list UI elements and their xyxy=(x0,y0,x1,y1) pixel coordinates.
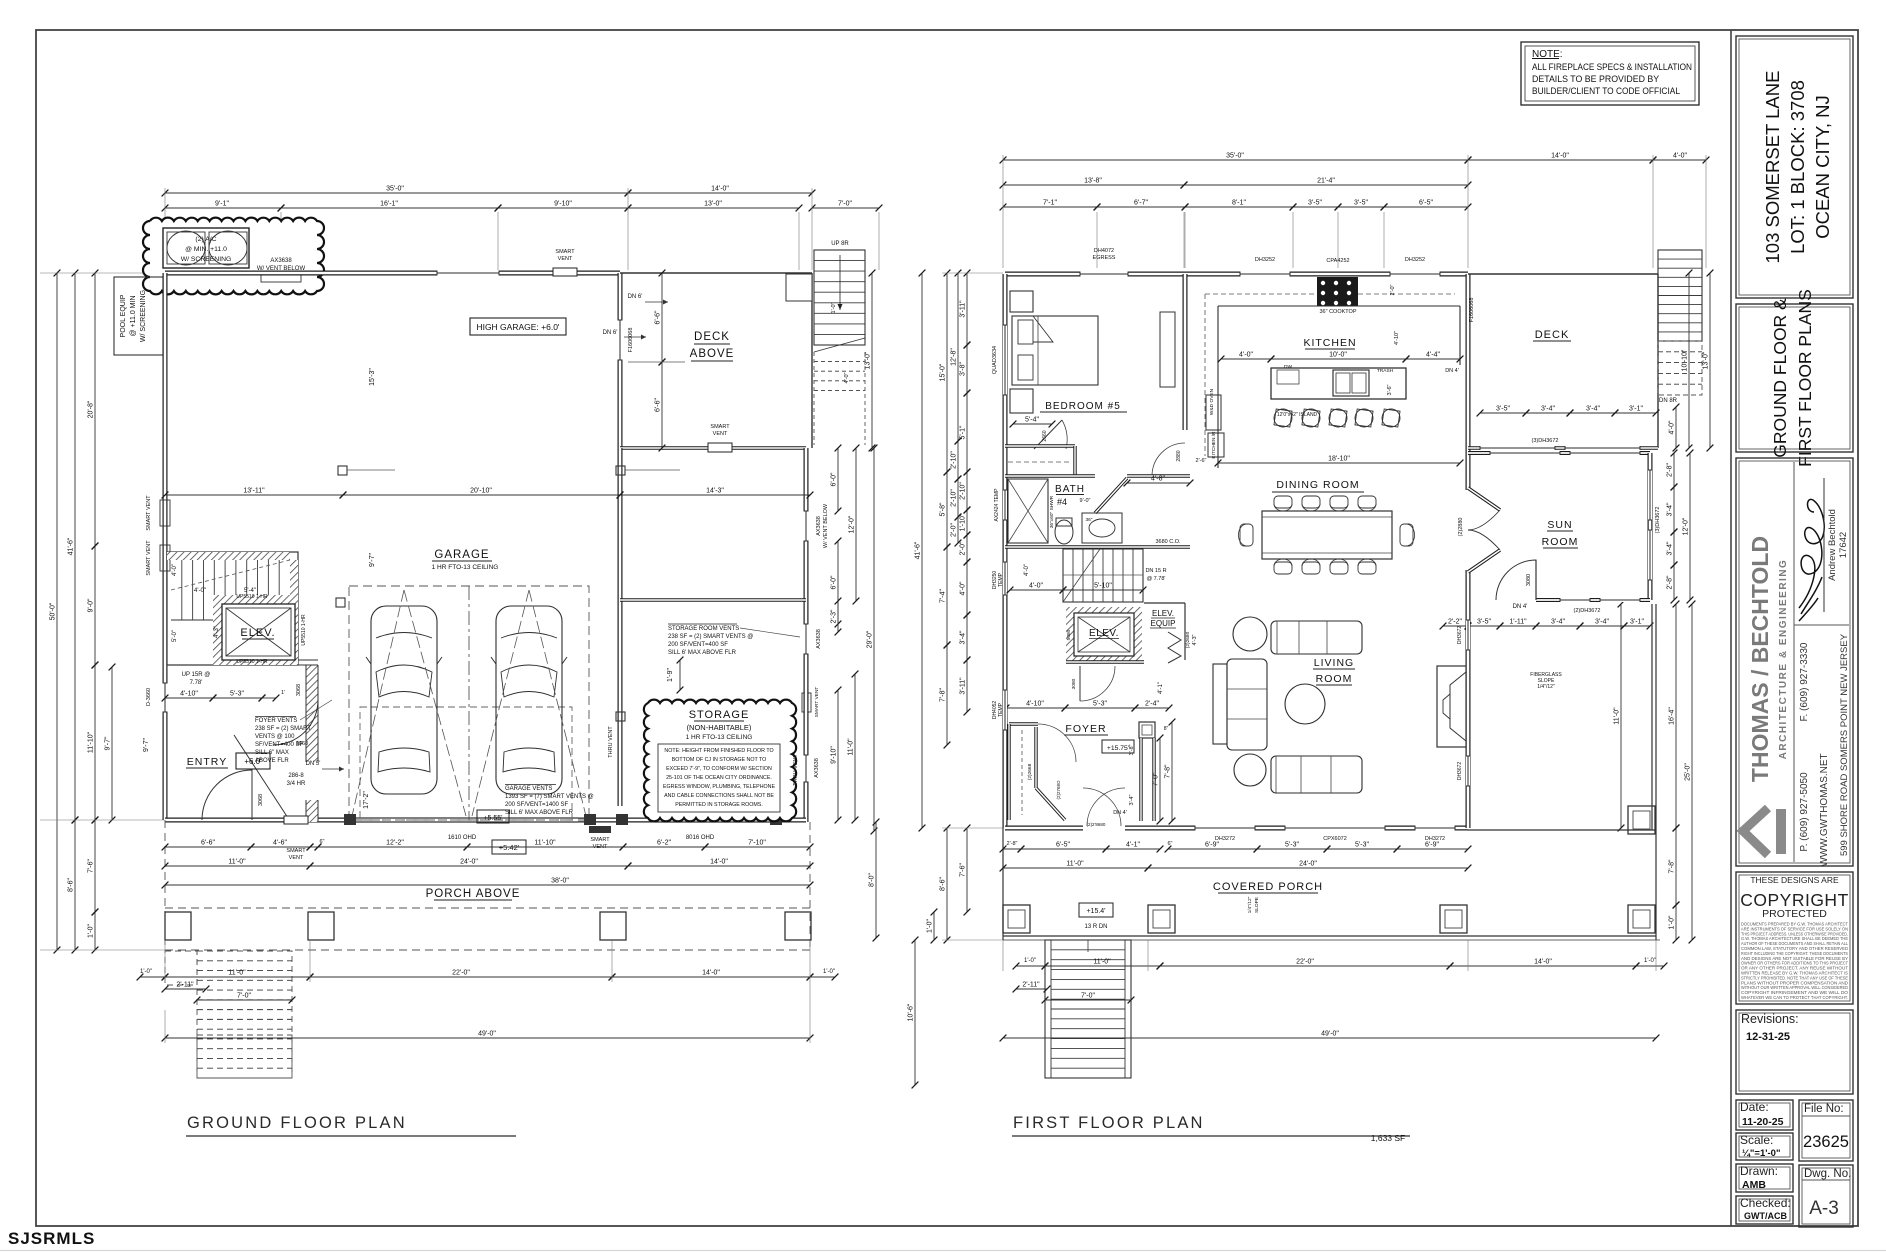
storage note cloud xyxy=(644,700,796,822)
svg-text:3'-5": 3'-5" xyxy=(1308,200,1322,207)
svg-text:VENT: VENT xyxy=(289,855,304,861)
svg-text:13'-0": 13'-0" xyxy=(865,351,872,369)
svg-text:Dwg. No.: Dwg. No. xyxy=(1804,1168,1851,1180)
svg-text:DN 4': DN 4' xyxy=(1445,368,1459,374)
svg-text:VENT: VENT xyxy=(558,256,573,262)
bedroom east wall xyxy=(1183,274,1188,430)
svg-text:10'-10": 10'-10" xyxy=(1682,349,1689,371)
svg-text:1'-0": 1'-0" xyxy=(831,302,837,313)
svg-text:29'-0": 29'-0" xyxy=(867,630,874,648)
svg-text:21'-4": 21'-4" xyxy=(1317,178,1335,185)
svg-text:EGRESS: EGRESS xyxy=(1093,255,1116,261)
svg-text:200 SF/VENT=1400 SF: 200 SF/VENT=1400 SF xyxy=(505,802,569,808)
svg-text:2'-6": 2'-6" xyxy=(1196,458,1207,464)
sofa bottom xyxy=(1271,756,1362,793)
svg-text:2'-10": 2'-10" xyxy=(960,482,967,500)
svg-text:WWW.GWTHOMAS.NET: WWW.GWTHOMAS.NET xyxy=(1819,753,1830,866)
kitchen island xyxy=(1271,368,1406,399)
svg-text:238 SF = (2) SMART: 238 SF = (2) SMART xyxy=(255,726,311,732)
svg-text:1'-0": 1'-0" xyxy=(927,919,934,933)
svg-text:ABOVE FLR: ABOVE FLR xyxy=(255,758,289,764)
foyer vents note xyxy=(255,716,296,718)
svg-text:1 HR FTO-13 CEILING: 1 HR FTO-13 CEILING xyxy=(432,564,499,571)
svg-text:36" COOKTOP: 36" COOKTOP xyxy=(1319,309,1356,315)
svg-text:(2)2668: (2)2668 xyxy=(1027,763,1033,780)
svg-text:SILL 6" MAX: SILL 6" MAX xyxy=(255,750,289,756)
svg-text:ARCHITECTURE & ENGINEERING: ARCHITECTURE & ENGINEERING xyxy=(1778,559,1789,760)
svg-text:CPA4252: CPA4252 xyxy=(1326,258,1349,264)
svg-text:11'-0": 11'-0" xyxy=(228,970,246,977)
cooktop xyxy=(1317,277,1358,306)
pool equip box xyxy=(114,277,163,355)
svg-text:2'-10": 2'-10" xyxy=(951,489,958,507)
svg-text:AND CABLE CONNECTIONS SHALL NO: AND CABLE CONNECTIONS SHALL NOT BE xyxy=(664,793,774,799)
elevation tags xyxy=(477,810,509,823)
svg-text:GROUND FLOOR PLAN: GROUND FLOOR PLAN xyxy=(187,1114,407,1132)
svg-text:2'-2": 2'-2" xyxy=(1448,619,1462,626)
svg-text:4'-3": 4'-3" xyxy=(214,626,220,638)
svg-text:SMART VENT: SMART VENT xyxy=(814,687,820,718)
svg-text:OCEAN CITY, NJ: OCEAN CITY, NJ xyxy=(1812,95,1833,239)
svg-text:DN 5': DN 5' xyxy=(306,761,321,767)
svg-text:9'-0": 9'-0" xyxy=(88,598,95,612)
svg-text:12'-0": 12'-0" xyxy=(849,515,856,533)
sofa top xyxy=(1271,621,1362,654)
bed xyxy=(1010,291,1033,312)
elev equip room xyxy=(1144,602,1185,604)
svg-text:35'-0": 35'-0" xyxy=(1226,153,1244,160)
svg-text:4'-0": 4'-0" xyxy=(844,372,850,383)
svg-text:3'-4": 3'-4" xyxy=(1667,502,1674,516)
svg-text:11'-0": 11'-0" xyxy=(848,738,855,756)
svg-text:FOYER VENTS: FOYER VENTS xyxy=(255,718,297,724)
svg-text:3'-4": 3'-4" xyxy=(1667,541,1674,555)
svg-text:6'-6": 6'-6" xyxy=(655,310,662,324)
sun room bottom dims xyxy=(1443,625,1468,627)
svg-text:1'-9": 1'-9" xyxy=(667,668,674,682)
svg-text:W/ VENT BELOW: W/ VENT BELOW xyxy=(823,503,829,548)
svg-text:3'-4": 3'-4" xyxy=(1551,619,1565,626)
svg-text:+5.55': +5.55' xyxy=(483,815,502,822)
svg-text:11'-0": 11'-0" xyxy=(228,859,246,866)
svg-text:10'-6": 10'-6" xyxy=(908,1003,915,1021)
svg-text:5'-10": 5'-10" xyxy=(1094,583,1112,590)
svg-text:2'-10": 2'-10" xyxy=(951,451,958,469)
svg-text:DN 6': DN 6' xyxy=(603,330,618,336)
svg-text:W&D OVEN: W&D OVEN xyxy=(1209,388,1215,415)
svg-text:DH3672: DH3672 xyxy=(1457,626,1463,645)
svg-text:3'-6": 3'-6" xyxy=(1387,384,1393,395)
svg-text:4'-10": 4'-10" xyxy=(180,691,198,698)
svg-text:16'-4": 16'-4" xyxy=(1669,707,1676,725)
svg-text:(2)2768O: (2)2768O xyxy=(1056,780,1061,800)
vanity xyxy=(1082,513,1122,543)
svg-text:16'-1": 16'-1" xyxy=(380,201,398,208)
svg-text:5'-3": 5'-3" xyxy=(1285,842,1299,849)
svg-text:POOL EQUIP: POOL EQUIP xyxy=(120,294,127,337)
car xyxy=(371,606,437,794)
svg-text:5'-4": 5'-4" xyxy=(1025,417,1039,424)
svg-text:1': 1' xyxy=(281,690,285,696)
ff stairs xyxy=(1063,549,1143,602)
svg-text:14'-0": 14'-0" xyxy=(702,970,720,977)
svg-text:WHATEVER WE CAN TO PROTECT THA: WHATEVER WE CAN TO PROTECT THAT COPYRIGH… xyxy=(1741,995,1848,1000)
svg-text:ELEV.: ELEV. xyxy=(240,627,275,639)
svg-text:+15.75': +15.75' xyxy=(1107,745,1129,752)
svg-text:9'-1": 9'-1" xyxy=(215,201,229,208)
svg-text:18'-10": 18'-10" xyxy=(1328,456,1350,463)
svg-text:1'-0": 1'-0" xyxy=(140,969,152,975)
svg-text:4'-8": 4'-8" xyxy=(1151,476,1165,483)
foyer east wall xyxy=(1139,722,1155,738)
svg-text:6'-9": 6'-9" xyxy=(1425,842,1439,849)
A/C units xyxy=(163,228,249,268)
svg-text:13'-11": 13'-11" xyxy=(243,488,265,495)
svg-text:11'-0": 11'-0" xyxy=(1066,861,1084,868)
svg-text:DN 4': DN 4' xyxy=(1513,604,1528,610)
garage bay outlines xyxy=(349,586,589,820)
svg-text:13'-8": 13'-8" xyxy=(1084,178,1102,185)
porch above outline xyxy=(165,907,810,909)
car xyxy=(496,606,562,794)
svg-text:COPYRIGHT: COPYRIGHT xyxy=(1740,890,1849,910)
svg-text:6'-7": 6'-7" xyxy=(1134,200,1148,207)
kitchen appliances left xyxy=(1206,395,1221,430)
svg-text:BUILDER/CLIENT TO CODE OFFICIA: BUILDER/CLIENT TO CODE OFFICIAL xyxy=(1532,86,1680,96)
svg-text:DECK: DECK xyxy=(694,331,730,343)
svg-text:GARAGE VENTS: GARAGE VENTS xyxy=(505,786,552,792)
svg-text:SILL 6' MAX ABOVE FLR: SILL 6' MAX ABOVE FLR xyxy=(505,810,574,816)
svg-text:12-31-25: 12-31-25 xyxy=(1746,1031,1790,1043)
svg-text:1'-0": 1'-0" xyxy=(823,969,835,975)
gf bottom wall with garage doors xyxy=(165,818,352,823)
svg-text:THESE DESIGNS ARE: THESE DESIGNS ARE xyxy=(1750,875,1839,885)
svg-text:1/4"/12": 1/4"/12" xyxy=(1537,684,1555,690)
svg-text:PROTECTED: PROTECTED xyxy=(1762,908,1827,920)
svg-text:4'-0": 4'-0" xyxy=(1239,352,1253,359)
svg-text:24'-0": 24'-0" xyxy=(1299,861,1317,868)
svg-text:4'-6": 4'-6" xyxy=(273,840,287,847)
svg-text:103 SOMERSET LANE: 103 SOMERSET LANE xyxy=(1762,71,1783,264)
svg-text:38'-0": 38'-0" xyxy=(551,878,569,885)
svg-text:KITCHEN /R: KITCHEN /R xyxy=(1211,431,1217,459)
svg-text:36"x60" SHWR: 36"x60" SHWR xyxy=(1049,495,1055,528)
svg-text:DH3252: DH3252 xyxy=(1405,257,1425,263)
gf elevator xyxy=(213,595,298,665)
svg-text:5'-8": 5'-8" xyxy=(940,502,947,516)
kitchen counters xyxy=(1218,305,1460,307)
gf bottom dims xyxy=(165,846,251,848)
svg-text:7'-0": 7'-0" xyxy=(1153,772,1160,786)
svg-text:5'-3": 5'-3" xyxy=(1093,701,1107,708)
deck above region xyxy=(620,272,812,274)
foyer dims xyxy=(1006,707,1065,709)
svg-text:11'-0": 11'-0" xyxy=(1614,707,1621,725)
svg-text:4'-0": 4'-0" xyxy=(194,588,206,594)
sun room door xyxy=(1496,560,1536,600)
dresser xyxy=(1160,312,1175,387)
svg-text:13'-0": 13'-0" xyxy=(1703,351,1710,369)
ff top wall windows xyxy=(1080,272,1128,277)
bedroom closet xyxy=(1005,444,1075,447)
svg-text:(2) A/C: (2) A/C xyxy=(195,236,216,243)
svg-text:15'-0": 15'-0" xyxy=(940,363,947,381)
svg-text:1'-0": 1'-0" xyxy=(1644,958,1656,964)
svg-text:7'-10": 7'-10" xyxy=(748,840,766,847)
svg-text:(3)DH3672: (3)DH3672 xyxy=(1655,507,1661,534)
svg-text:(2)2680: (2)2680 xyxy=(1185,631,1191,648)
gf interior dims xyxy=(165,494,343,496)
svg-text:6'-9": 6'-9" xyxy=(1205,842,1219,849)
svg-text:2'-8": 2'-8" xyxy=(1007,841,1018,847)
svg-text:8": 8" xyxy=(1164,726,1169,732)
svg-text:SMART VENT: SMART VENT xyxy=(146,495,152,531)
svg-text:11'-10": 11'-10" xyxy=(88,731,95,753)
svg-text:FIRST FLOOR PLANS: FIRST FLOOR PLANS xyxy=(1795,289,1815,467)
svg-text:@ +11.0 MIN: @ +11.0 MIN xyxy=(130,295,137,336)
svg-text:SMART VENT: SMART VENT xyxy=(146,540,152,576)
svg-text:EQUIP: EQUIP xyxy=(1151,619,1176,628)
svg-text:3'-5": 3'-5" xyxy=(1477,619,1491,626)
svg-text:3'-11": 3'-11" xyxy=(960,677,967,695)
ff left dims xyxy=(921,273,923,828)
svg-text:Date:: Date: xyxy=(1740,1100,1769,1114)
svg-text:3'-1": 3'-1" xyxy=(1630,619,1644,626)
svg-text:VENT: VENT xyxy=(713,431,728,437)
title block column xyxy=(1730,30,1732,1226)
svg-text:4'-1": 4'-1" xyxy=(1158,682,1164,694)
svg-text:7'-6": 7'-6" xyxy=(88,859,95,873)
svg-text:5080: 5080 xyxy=(1066,629,1072,640)
svg-text:UP5510 1-HR: UP5510 1-HR xyxy=(236,659,268,665)
svg-text:1'-0": 1'-0" xyxy=(1024,958,1036,964)
svg-text:3'-8": 3'-8" xyxy=(1129,744,1135,755)
svg-text:SUN: SUN xyxy=(1547,519,1572,531)
svg-text:8'-1": 8'-1" xyxy=(1232,200,1246,207)
svg-text:50'-0": 50'-0" xyxy=(50,602,57,620)
svg-text:3'-5": 3'-5" xyxy=(1496,406,1510,413)
svg-text:LOT: 1 BLOCK: 3708: LOT: 1 BLOCK: 3708 xyxy=(1787,80,1808,254)
garage vents note xyxy=(505,784,556,786)
bar stools xyxy=(1274,409,1292,427)
svg-text:11-20-25: 11-20-25 xyxy=(1742,1116,1784,1128)
deck stairs DN 8R xyxy=(1658,250,1702,341)
armchair top xyxy=(1233,617,1267,651)
svg-text:20'-8": 20'-8" xyxy=(88,400,95,418)
svg-text:5'-0": 5'-0" xyxy=(172,630,178,642)
armchair bottom xyxy=(1234,754,1266,786)
svg-text:5'-4": 5'-4" xyxy=(244,588,256,594)
svg-text:KITCHEN: KITCHEN xyxy=(1303,337,1356,349)
svg-text:12'0"x42" ISLAND: 12'0"x42" ISLAND xyxy=(1277,412,1318,418)
svg-text:286-8: 286-8 xyxy=(288,773,304,779)
deck bottom dims xyxy=(1480,412,1526,414)
svg-text:File No:: File No: xyxy=(1804,1103,1844,1115)
svg-text:Revisions:: Revisions: xyxy=(1741,1012,1799,1026)
svg-text:2'-11": 2'-11" xyxy=(1022,982,1040,989)
svg-text:1'-10": 1'-10" xyxy=(960,513,967,531)
svg-text:ELEV.: ELEV. xyxy=(1152,609,1174,618)
svg-text:3680 C.O.: 3680 C.O. xyxy=(1155,539,1181,545)
svg-text:TEMP: TEMP xyxy=(998,702,1004,717)
svg-text:8'-6": 8'-6" xyxy=(940,877,947,891)
svg-text:7'-0": 7'-0" xyxy=(237,993,251,1000)
chaise left xyxy=(1213,664,1227,744)
svg-text:238 SF = (2) SMART VENTS @: 238 SF = (2) SMART VENTS @ xyxy=(668,634,753,640)
gf exterior walls xyxy=(165,271,620,276)
svg-text:Scale:: Scale: xyxy=(1740,1133,1773,1147)
toilet xyxy=(1055,520,1073,544)
svg-text:9'-7": 9'-7" xyxy=(105,736,112,750)
svg-text:AX3638: AX3638 xyxy=(814,758,820,778)
svg-text:(2)DH3672: (2)DH3672 xyxy=(1574,608,1601,614)
gf front stairs xyxy=(197,951,292,1078)
svg-text:W/ SCREENING: W/ SCREENING xyxy=(140,290,147,342)
svg-text:TRASH: TRASH xyxy=(1377,368,1394,374)
svg-text:4'-0": 4'-0" xyxy=(172,564,178,576)
foyer xyxy=(1066,660,1144,664)
svg-text:5'-1": 5'-1" xyxy=(960,425,967,439)
ff front stairs xyxy=(1045,940,1131,1078)
svg-text:+5.42': +5.42' xyxy=(499,843,520,852)
svg-text:Drawn:: Drawn: xyxy=(1740,1164,1778,1178)
svg-text:AX3638: AX3638 xyxy=(816,629,822,649)
svg-text:35'-0": 35'-0" xyxy=(386,186,404,193)
svg-text:ROOM: ROOM xyxy=(1542,536,1579,548)
svg-text:8016 OHD: 8016 OHD xyxy=(686,835,715,841)
svg-text:SJSRMLS: SJSRMLS xyxy=(8,1229,95,1248)
svg-text:(2)2880: (2)2880 xyxy=(1458,518,1464,537)
svg-text:ELEV.: ELEV. xyxy=(1089,628,1119,639)
bedroom 5 xyxy=(1003,325,1007,395)
svg-text:14'-0": 14'-0" xyxy=(1534,959,1552,966)
svg-text:@ 7.78': @ 7.78' xyxy=(1147,576,1166,582)
svg-text:DINING ROOM: DINING ROOM xyxy=(1276,479,1359,491)
svg-text:2'-0": 2'-0" xyxy=(951,523,958,537)
svg-text:6'-6": 6'-6" xyxy=(201,840,215,847)
bath 4 walls xyxy=(1005,474,1095,478)
firm logo chevron xyxy=(1743,808,1768,855)
svg-text:UP 8R: UP 8R xyxy=(831,241,849,247)
svg-text:3080: 3080 xyxy=(1071,678,1077,689)
deck stairs UP 8R xyxy=(786,274,812,301)
svg-text:EXCEED 7'-9", TO CONFORM W/ SE: EXCEED 7'-9", TO CONFORM W/ SECTION xyxy=(666,766,772,772)
sun room xyxy=(1468,451,1650,455)
svg-text:AX3638: AX3638 xyxy=(270,258,292,264)
svg-text:9'-0": 9'-0" xyxy=(1080,498,1091,504)
svg-text:4'-4": 4'-4" xyxy=(1426,352,1440,359)
svg-text:1 HR FTO-13 CEILING: 1 HR FTO-13 CEILING xyxy=(686,734,753,741)
svg-text:12'-8": 12'-8" xyxy=(951,348,958,366)
svg-text:PORCH ABOVE: PORCH ABOVE xyxy=(426,888,521,900)
svg-text:1610 OHD: 1610 OHD xyxy=(448,835,477,841)
svg-text:599 SHORE ROAD SOMERS POINT: 599 SHORE ROAD SOMERS POINT NEW JERSEY xyxy=(1839,633,1850,856)
svg-text:COVERED PORCH: COVERED PORCH xyxy=(1213,881,1323,893)
svg-text:3/4 HR: 3/4 HR xyxy=(287,781,306,787)
svg-text:2660: 2660 xyxy=(1042,430,1048,441)
title box: dwg no xyxy=(1799,1165,1853,1227)
svg-text:11'-10": 11'-10" xyxy=(534,840,556,847)
foyer top wall + closet xyxy=(1009,722,1038,725)
svg-text:3'-11": 3'-11" xyxy=(960,300,967,318)
covered porch xyxy=(1468,829,1656,831)
svg-text:25-101 OF THE OCEAN CITY ORDIN: 25-101 OF THE OCEAN CITY ORDINANCE. xyxy=(666,775,772,781)
dining table xyxy=(1262,511,1392,559)
svg-text:3'-8": 3'-8" xyxy=(960,362,967,376)
svg-text:14'-3": 14'-3" xyxy=(706,488,724,495)
ff bottom dims xyxy=(1003,848,1021,850)
svg-text:2880: 2880 xyxy=(1176,450,1182,461)
svg-text:DW: DW xyxy=(1284,364,1292,370)
svg-text:6'-0": 6'-0" xyxy=(831,472,838,486)
svg-text:CPX6072: CPX6072 xyxy=(1323,836,1347,842)
svg-text:3068: 3068 xyxy=(296,684,302,696)
svg-text:7'-1": 7'-1" xyxy=(1043,200,1057,207)
svg-text:DH4072: DH4072 xyxy=(1094,248,1114,254)
svg-text:PERMITTED IN STORAGE ROOMS.: PERMITTED IN STORAGE ROOMS. xyxy=(675,802,763,808)
svg-text:24'-0": 24'-0" xyxy=(460,859,478,866)
svg-text:5'-3": 5'-3" xyxy=(1355,842,1369,849)
svg-text:3080: 3080 xyxy=(1526,574,1532,586)
svg-text:3068: 3068 xyxy=(258,794,264,806)
svg-text:THOMAS / BECHTOLD: THOMAS / BECHTOLD xyxy=(1747,536,1773,782)
svg-text:13'-0": 13'-0" xyxy=(704,201,722,208)
elev hall door xyxy=(1079,666,1081,701)
svg-text:VENTS @ 100: VENTS @ 100 xyxy=(255,734,295,740)
garage door jambs xyxy=(344,814,356,825)
svg-text:3'-1": 3'-1" xyxy=(1629,406,1643,413)
svg-text:ABOVE: ABOVE xyxy=(690,348,735,360)
svg-text:4'-0": 4'-0" xyxy=(1669,420,1676,434)
svg-text:14'-0": 14'-0" xyxy=(710,859,728,866)
svg-text:UP5510 1-HR: UP5510 1-HR xyxy=(236,594,268,600)
svg-text:3'-5": 3'-5" xyxy=(1354,200,1368,207)
svg-text:LIVING: LIVING xyxy=(1314,657,1354,669)
svg-text:THRU VENT: THRU VENT xyxy=(793,754,799,786)
svg-text:7'-8": 7'-8" xyxy=(940,688,947,702)
svg-text:10'-0": 10'-0" xyxy=(1329,352,1347,359)
svg-text:41'-6": 41'-6" xyxy=(915,541,922,559)
svg-text:(2)2'8680: (2)2'8680 xyxy=(1087,822,1106,827)
svg-text:17'-2": 17'-2" xyxy=(363,791,370,809)
svg-text:QUAD3634: QUAD3634 xyxy=(992,346,998,374)
svg-text:4'-10": 4'-10" xyxy=(1026,701,1044,708)
svg-text:DN 4': DN 4' xyxy=(1113,810,1127,816)
svg-text:2'-4": 2'-4" xyxy=(1145,701,1159,708)
shower xyxy=(1008,479,1048,543)
svg-text:1'-11": 1'-11" xyxy=(1509,619,1527,626)
svg-text:@ MIN. +11.0: @ MIN. +11.0 xyxy=(185,246,227,253)
svg-text:22'-0": 22'-0" xyxy=(1296,959,1314,966)
gf stairs xyxy=(167,552,298,665)
svg-text:DECK: DECK xyxy=(1535,329,1570,341)
svg-text:W/ SCREENING: W/ SCREENING xyxy=(181,256,232,263)
svg-text:1'-0": 1'-0" xyxy=(1669,915,1676,929)
gf windows and vents xyxy=(437,271,499,276)
svg-text:SLOPE: SLOPE xyxy=(1254,897,1260,913)
svg-text:F1606068: F1606068 xyxy=(1469,298,1475,323)
svg-text:Checked:: Checked: xyxy=(1740,1196,1791,1210)
svg-text:2'-8": 2'-8" xyxy=(1667,463,1674,477)
title box: file no xyxy=(1799,1100,1853,1161)
svg-text:SMART: SMART xyxy=(590,837,610,843)
svg-text:F. (609) 927-3330: F. (609) 927-3330 xyxy=(1799,642,1810,721)
title box: architect xyxy=(1736,458,1853,866)
svg-text:14'-0": 14'-0" xyxy=(1551,153,1569,160)
svg-text:2'-0": 2'-0" xyxy=(960,541,967,555)
coffee table xyxy=(1285,684,1325,724)
svg-text:FIRST FLOOR PLAN: FIRST FLOOR PLAN xyxy=(1013,1114,1205,1132)
